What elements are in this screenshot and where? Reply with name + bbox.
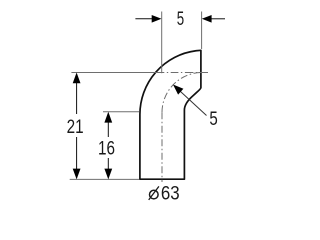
dim 21: up arrow (73, 73, 81, 84)
dim 21: bottom extension line (70, 178, 139, 180)
centerline arc (dash-dot) (162, 73, 202, 113)
dim 16: dimension line with gap (107, 120, 109, 137)
dim 5 top: left leader + arrow (135, 18, 153, 20)
centerline horizontal (dash-dot) (157, 72, 209, 74)
leader radius 5: arrow (173, 85, 183, 95)
leader radius 5: line (174, 86, 207, 116)
dim 5 top: extension line right (201, 12, 203, 50)
dim 21: down arrow (73, 169, 81, 180)
svg-text:16: 16 (98, 138, 115, 159)
svg-text:63: 63 (161, 184, 180, 205)
centerline vertical (dash-dot) (161, 112, 163, 182)
dim 5 top: extension line left (161, 12, 163, 74)
dim 21: dimension line with gap (76, 80, 78, 114)
dim 5 top: right leader + arrow (210, 18, 225, 20)
svg-text:5: 5 (177, 9, 184, 30)
svg-text:21: 21 (67, 117, 84, 138)
svg-text:5: 5 (209, 109, 217, 130)
diameter symbol (150, 190, 159, 199)
dim 21: top extension line (to pipe axis) (71, 72, 157, 74)
pipe bend outline (140, 50, 201, 179)
dim 16: top extension line (103, 111, 139, 113)
dim 16: up arrow (104, 112, 112, 123)
dim 16: down arrow (104, 169, 112, 180)
